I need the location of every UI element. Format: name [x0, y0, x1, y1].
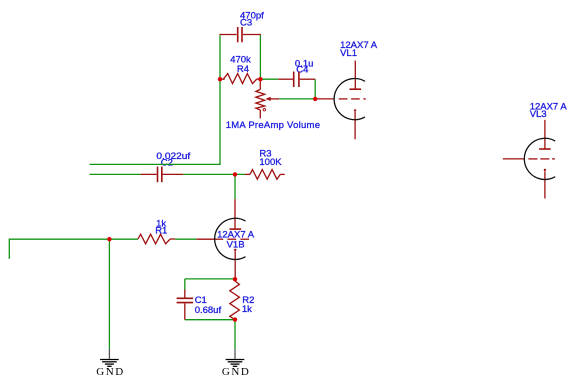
svg-text:VL1: VL1 — [340, 48, 357, 59]
svg-text:C3: C3 — [240, 18, 252, 29]
svg-text:GND: GND — [222, 366, 249, 378]
svg-text:VL3: VL3 — [530, 109, 547, 120]
svg-text:GND: GND — [96, 366, 123, 378]
svg-text:C2: C2 — [161, 158, 173, 169]
svg-text:0.68uf: 0.68uf — [195, 305, 222, 316]
svg-text:100K: 100K — [259, 157, 282, 168]
svg-text:1MA PreAmp Volume: 1MA PreAmp Volume — [226, 120, 321, 131]
svg-text:1k: 1k — [242, 304, 252, 315]
